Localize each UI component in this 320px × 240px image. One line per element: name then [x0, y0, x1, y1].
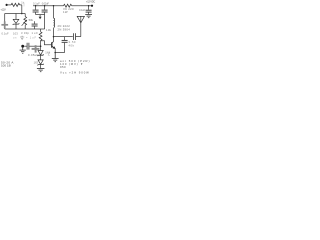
svg-text:163: 163 [34, 61, 39, 65]
svg-text:+12V: +12V [0, 8, 6, 12]
svg-text:un: un [13, 37, 17, 40]
node +12V right terminal [91, 5, 93, 7]
ground arrow A1 [39, 15, 41, 17]
ground G4 [37, 69, 45, 72]
wire vertical C2 to bus [44, 15, 46, 29]
svg-text:1uF: 1uF [32, 31, 39, 35]
svg-text:1uF: 1uF [30, 37, 37, 40]
svg-text:0.1uF: 0.1uF [79, 8, 86, 12]
wire emitter to cap [55, 52, 64, 54]
capacitor C7 [27, 43, 29, 50]
diode D1 [13, 14, 20, 30]
wire collector rail [54, 36, 73, 38]
node emitter junction [54, 52, 56, 54]
svg-text:2N 2222: 2N 2222 [58, 24, 71, 28]
resistor R3 [39, 29, 42, 51]
svg-text:10k: 10k [46, 28, 52, 32]
svg-text:3.5F: 3.5F [69, 40, 77, 44]
svg-text:100 1B: 100 1B [1, 64, 11, 68]
node junction C1 [35, 5, 37, 7]
resistor R4 [64, 4, 72, 7]
svg-text:50k: 50k [29, 18, 34, 22]
ground G3 [85, 15, 92, 18]
diode D2 zener [38, 51, 44, 60]
node collector junction [53, 36, 55, 38]
wire base jog [41, 41, 52, 45]
capacitor C1 [33, 6, 39, 15]
wire bottom bus [5, 28, 45, 30]
node junction bus1 [21, 13, 23, 15]
svg-text:0.1uF: 0.1uF [2, 32, 10, 36]
wire top rail [33, 5, 64, 7]
svg-text:Vcc +2H 900W: Vcc +2H 900W [60, 71, 89, 75]
wire collector drop [53, 28, 55, 42]
ground G1 [20, 48, 26, 54]
svg-text:0.02uF: 0.02uF [42, 1, 50, 5]
diode D3 zener [38, 60, 44, 69]
svg-text:=: = [26, 36, 28, 39]
wire to diode node [29, 45, 40, 47]
svg-text:40k: 40k [69, 43, 75, 47]
ground G2 [52, 53, 59, 62]
wire emitter drop [54, 48, 56, 52]
svg-text:0.1uF: 0.1uF [33, 1, 40, 5]
svg-text:1W: 1W [63, 10, 68, 14]
svg-text:+12 VDC: +12 VDC [86, 0, 95, 4]
svg-text:1C: 1C [48, 54, 51, 57]
svg-text:950: 950 [60, 65, 66, 69]
svg-text:2N 3904: 2N 3904 [58, 28, 71, 32]
capacitor C2 [42, 6, 48, 15]
svg-text:0.05uF: 0.05uF [28, 53, 39, 57]
wire left rail [4, 14, 6, 30]
node junction base/diode [40, 45, 42, 47]
node +12V left terminal [6, 4, 8, 6]
wire to antenna [76, 36, 81, 38]
capacitor C8 electrolytic plus [1, 21, 8, 28]
wire input [24, 45, 27, 47]
node junction L1 [53, 5, 55, 7]
wire bus1 [5, 13, 26, 15]
faint mark [23, 3, 25, 7]
resistor R1 [11, 3, 22, 6]
capacitor C4 bypass [86, 6, 92, 15]
wire cap link [36, 14, 45, 16]
svg-text:103: 103 [13, 32, 18, 36]
potentiometer R2 [22, 14, 27, 30]
capacitor C9 plus mark [32, 45, 40, 52]
node junction C2 [44, 5, 46, 7]
capacitor C5 [62, 37, 68, 53]
wire [8, 4, 11, 6]
wire [21, 5, 23, 14]
wire top rail right [72, 5, 92, 7]
legend tiny ground glyph [20, 36, 24, 40]
capacitor C3 trimmer [32, 21, 38, 29]
node audio input terminal [21, 45, 24, 48]
svg-text:3 30p: 3 30p [21, 31, 30, 35]
inductor L1 RFC [53, 6, 55, 18]
antenna AE1 [77, 16, 84, 36]
node junction C4 [88, 5, 90, 7]
capacitor C6 coupling [73, 33, 75, 40]
transistor Q1 [52, 42, 56, 49]
